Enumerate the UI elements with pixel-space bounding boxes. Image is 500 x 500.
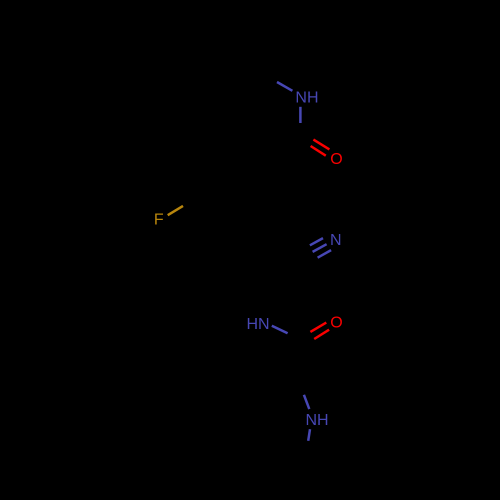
triple bond C#N nitrile, N half line top: [310, 238, 323, 245]
wire bond N3-C4 (amide N to bottom carbonyl C), N half: [272, 326, 288, 334]
svg-text:O: O: [330, 151, 342, 168]
svg-text:N: N: [330, 232, 342, 249]
svg-text:HN: HN: [247, 316, 270, 333]
wire bond N1-C2 (amide N to carbonyl C), N half: [299, 107, 302, 123]
svg-text:F: F: [154, 212, 164, 229]
double bond C4=O2 (bottom carbonyl), O half line 2: [314, 330, 329, 339]
wire bond C5-N4 (methylene to amine N), N half: [304, 395, 309, 409]
double bond C2=O1 (top carbonyl), O half line 1: [313, 140, 329, 150]
wire bond C-F (aryl to fluorine), F half: [168, 206, 183, 215]
svg-text:NH: NH: [295, 89, 318, 106]
svg-text:NH: NH: [306, 412, 329, 429]
wire bond CH3-N1 (top methyl to amide NH), N half: [277, 82, 292, 91]
double bond C4=O2 (bottom carbonyl), O half line 1: [310, 323, 326, 332]
svg-text:O: O: [330, 315, 342, 332]
wire bond N4-C6 (amine N to bottom methyl), N half: [308, 429, 310, 441]
triple bond C#N nitrile, N half line bottom: [318, 250, 332, 258]
triple bond C#N nitrile, N half line middle: [313, 244, 327, 252]
double bond C2=O1 (top carbonyl), O half line 2: [311, 146, 326, 156]
